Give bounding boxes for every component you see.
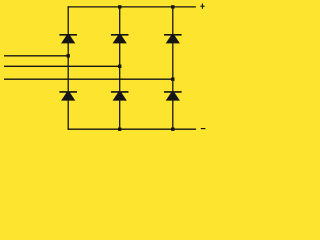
diode D5 (top, leg 3) <box>164 35 182 44</box>
wire: phase B input line <box>4 65 120 67</box>
wire: bottom negative rail <box>68 128 197 130</box>
label: minus terminal <box>201 128 206 130</box>
wire: leg 2 vertical (phase B leg) <box>119 6 121 130</box>
junction: leg 3 / bottom rail <box>171 128 174 131</box>
wire: leg 1 vertical (phase A leg) <box>67 6 69 130</box>
junction: phase A / leg 1 <box>67 54 70 57</box>
wire: top positive rail <box>68 6 196 8</box>
wire: phase A input line <box>4 55 68 57</box>
wire: phase C input line <box>4 78 173 80</box>
junction: leg 2 / bottom rail <box>118 128 121 131</box>
wire: leg 3 vertical (phase C leg) <box>172 6 174 130</box>
diode D3 (top, leg 2) <box>111 35 129 44</box>
diode D1 (top, leg 1) <box>59 35 77 44</box>
diode D2 (bottom, leg 3) <box>164 92 182 101</box>
diode D6 (bottom, leg 2) <box>111 92 129 101</box>
diode D4 (bottom, leg 1) <box>59 92 77 101</box>
junction: leg 2 / top rail <box>118 5 121 8</box>
label: plus terminal <box>200 4 204 9</box>
junction: leg 3 / top rail <box>171 5 174 8</box>
junction: phase C / leg 3 <box>171 78 174 81</box>
junction: phase B / leg 2 <box>118 65 121 68</box>
